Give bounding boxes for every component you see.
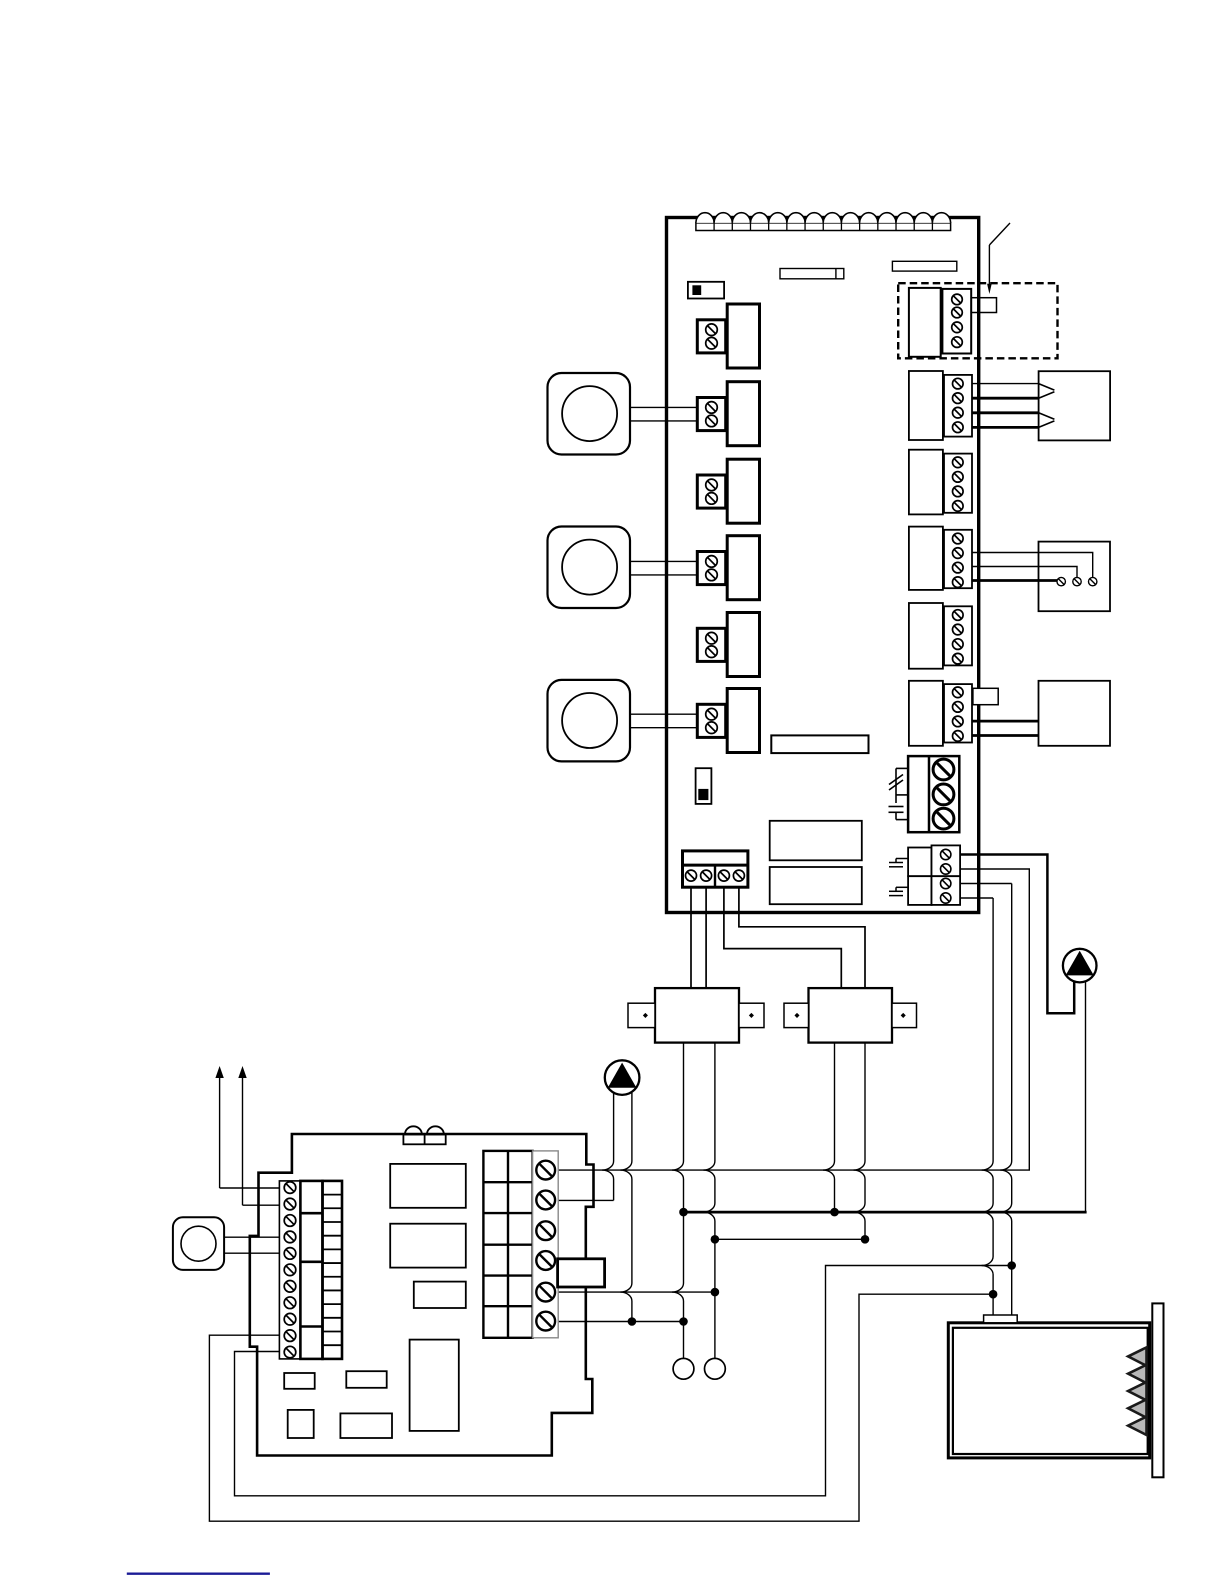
wire pair from thermostat T4 to U2 strip	[224, 1237, 279, 1253]
relay K2 (zone 2)	[727, 382, 759, 446]
junction nodes	[628, 1208, 1016, 1326]
thermostat terminal block TB6 (2 screws)	[697, 704, 725, 737]
U2 component rect H	[340, 1413, 392, 1438]
thermostat T2	[548, 527, 631, 609]
U2 left terminal strip small cells	[323, 1181, 343, 1359]
terminal block TB7 (4 screws) in dashed box	[942, 289, 971, 354]
U2 component rect F	[346, 1371, 386, 1388]
silkscreen label rect C	[770, 821, 862, 861]
relay K12	[909, 681, 943, 746]
thick wire TB14 screw1 to pump P2 left leg	[960, 855, 1074, 1014]
terminal block TB12 (4 screws)	[944, 684, 972, 742]
line voltage symbol at TB14	[889, 859, 908, 867]
LED indicator strip with 14 scallops on top edge	[696, 213, 951, 231]
boiler mounting plate	[1152, 1303, 1163, 1477]
arrow wire 2 from U2 TB-2 going up	[238, 1066, 279, 1205]
U2 component rect A	[390, 1164, 466, 1208]
pump output block TB14 (2 screws)	[908, 845, 960, 876]
zone control panel U1 board outline	[667, 218, 979, 913]
wires from TB12 to end-switch box	[972, 721, 1039, 735]
transformer T2 right pin down to run C	[854, 1043, 866, 1240]
line voltage symbol at TB15	[889, 887, 908, 895]
wire pair from thermostat T3 to terminal TB6	[630, 714, 697, 728]
silkscreen label rect A	[780, 269, 844, 279]
wire TB16-3 to transformer T2	[724, 887, 841, 988]
connector tab on TB12	[973, 688, 998, 704]
connector tab on TB7	[971, 298, 996, 313]
wire from TB15 screw2 down to run D2	[961, 898, 994, 1315]
end-switch box	[1039, 681, 1111, 746]
remote device box with 3 terminals	[1039, 542, 1111, 612]
wire nut 2	[705, 1358, 726, 1379]
footer rule	[127, 1572, 270, 1574]
U2 left terminal strip screws column	[279, 1181, 300, 1359]
relay K11	[909, 603, 943, 669]
thermostat terminal block TB4 (2 screws)	[697, 552, 725, 585]
pump P2 right leg down to run B	[1085, 980, 1087, 1212]
terminal block TB9 (4 screws)	[944, 454, 972, 513]
transformer T1 left secondary pin down to run B and wire nut 1	[672, 1043, 684, 1359]
fuse humps on U2 top edge	[403, 1126, 445, 1144]
thermostat terminal block TB2 (2 screws)	[697, 398, 725, 431]
plug blade chevrons	[1039, 384, 1055, 428]
U2 left terminal strip grouping cells	[300, 1181, 322, 1359]
thermostat terminal block TB1 (2 screws)	[697, 320, 725, 353]
wire pair from thermostat T2 to terminal TB4	[630, 561, 697, 575]
wire TB16-2 to transformer T1	[705, 887, 707, 988]
wire run D: boiler control TB-5 to T1 secondary	[558, 1291, 715, 1293]
transformer feed terminal block TB16 (4 screws)	[683, 851, 748, 887]
wire run B: transformer commons to pump P2	[684, 1211, 1087, 1214]
boiler supply pipe stub	[984, 1315, 1018, 1323]
wire run E: boiler control TB-6 junctions	[558, 1321, 683, 1323]
U2 right terminal strip screws	[533, 1151, 559, 1338]
pump P1 right leg down to run E	[620, 1093, 632, 1322]
relay K8	[909, 371, 943, 440]
circulator pump P2	[1063, 949, 1097, 983]
boiler output block TB15 (2 screws)	[908, 876, 960, 905]
transformer T2	[784, 988, 917, 1043]
wire from TB15 screw1 down to run C2	[961, 884, 1012, 1316]
wire nut 1	[673, 1358, 694, 1379]
dashed outline: optional priority zone module	[898, 283, 1057, 358]
relay K5 (zone 5)	[727, 613, 759, 677]
transformer T2 left pin down to run B	[823, 1043, 835, 1213]
120V line symbols (hot with breaker slashes, neutral capacitor)	[889, 768, 909, 819]
arrow wire 1 from U2 TB-1 going up	[215, 1066, 279, 1188]
leader arrow pointing to priority zone connector	[987, 223, 1010, 294]
U2 edge connector tab	[558, 1259, 605, 1287]
relay K1 (zone 1)	[727, 304, 759, 368]
relay K3 (zone 3)	[727, 459, 759, 523]
transformer T1 right secondary pin down through runs C,D to wire nut 2	[703, 1043, 715, 1359]
U2 component rect B	[390, 1224, 466, 1268]
relay K9	[909, 450, 943, 515]
U2 component rect D	[410, 1340, 459, 1431]
120V power terminal block TB13 (3 large screws)	[908, 756, 959, 832]
terminal block TB10 (4 screws)	[944, 530, 972, 588]
pump P1 left leg to boiler control TB-2	[558, 1093, 613, 1200]
U2 component rect E	[284, 1373, 315, 1389]
wire TB16-1 to transformer T1	[690, 887, 692, 988]
U2 component rect G	[288, 1410, 314, 1438]
relay K7 inside dashed box	[909, 288, 941, 357]
wire pair from thermostat T1 to terminal TB2	[630, 407, 697, 421]
wire run C2: boiler control TB-11 loop to boiler wire	[235, 1266, 1012, 1496]
relay K6 (zone 6)	[727, 689, 759, 753]
boiler heat exchanger fins	[1128, 1347, 1146, 1435]
silkscreen label rect E	[771, 735, 868, 753]
wire run D2: boiler control TB-10 loop to boiler wire	[209, 1294, 993, 1521]
circulator pump P1	[605, 1060, 640, 1095]
terminal block TB8 (4 screws)	[944, 375, 972, 437]
silkscreen label rect B	[892, 261, 956, 271]
thermostat T3	[548, 680, 631, 762]
transformer T1	[628, 988, 764, 1043]
U2 component rect C	[414, 1282, 466, 1308]
thermostat terminal block TB5 (2 screws)	[697, 628, 725, 661]
boiler inner lining	[953, 1328, 1148, 1454]
damper plug connector box	[1039, 371, 1111, 440]
LED / jumper JP1 box with black square	[688, 282, 724, 299]
thermostat T4 (outdoor sensor)	[173, 1217, 224, 1270]
wire run C: transformer T1/T2 secondaries	[715, 1238, 865, 1240]
boiler outer shell	[948, 1323, 1149, 1458]
relay K10	[909, 527, 943, 590]
wires from TB8 to damper plug connector	[972, 384, 1039, 428]
silkscreen label rect D	[770, 867, 862, 904]
boiler control module U2 outline	[250, 1134, 594, 1456]
relay K4 (zone 4)	[727, 536, 759, 600]
terminal block TB11 (4 screws)	[944, 606, 972, 665]
jumper JP2 vertical box with black square	[696, 768, 712, 804]
thermostat terminal block TB3 (2 screws)	[697, 475, 725, 508]
wires from TB10 to remote device	[972, 553, 1093, 581]
wire TB16-4 to transformer T2	[739, 887, 865, 988]
thermostat T1	[548, 373, 631, 455]
wire run A: boiler control TB-1 to TB14 screw2	[558, 869, 1029, 1170]
U2 right terminal strip grid	[483, 1151, 532, 1338]
